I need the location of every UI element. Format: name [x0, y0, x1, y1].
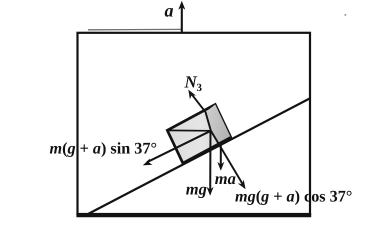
block thick bottom contact edge: [183, 138, 231, 164]
box (elevator) rectangle: [78, 33, 311, 214]
mg(g+a)cos37 arrow shaft: [211, 131, 243, 185]
acceleration arrow a (shaft): [181, 7, 183, 34]
svg-text:mg(g + a) cos 37°: mg(g + a) cos 37°: [235, 188, 352, 206]
ma arrowhead: [217, 162, 224, 171]
box thick bottom edge: [76, 213, 311, 217]
svg-text:a: a: [165, 1, 174, 21]
cos arrowhead: [238, 180, 246, 190]
mg arrowhead: [207, 187, 214, 196]
block right darker face: [206, 105, 231, 145]
acceleration arrowhead: [178, 1, 185, 10]
svg-text:m(g + a) sin 37°: m(g + a) sin 37°: [50, 140, 157, 158]
sin arrowhead: [143, 158, 153, 165]
svg-text:ma: ma: [215, 169, 236, 188]
svg-text:N: N: [184, 73, 198, 92]
scan artifact: faint double top border: [88, 28, 182, 30]
svg-text:3: 3: [197, 82, 203, 94]
block (shaded) on incline: [167, 105, 231, 164]
block internal horizontal line: [168, 129, 211, 131]
N3 arrowhead: [188, 90, 196, 100]
mg arrow shaft: [209, 131, 211, 191]
m(g+a)sin37 arrow shaft: [147, 131, 211, 162]
ma arrow shaft: [220, 146, 222, 166]
svg-text:mg: mg: [186, 180, 207, 199]
incline line: [88, 98, 311, 214]
normal force N3 arrow shaft: [191, 93, 211, 130]
scan artifact: faint dot: [344, 14, 346, 16]
